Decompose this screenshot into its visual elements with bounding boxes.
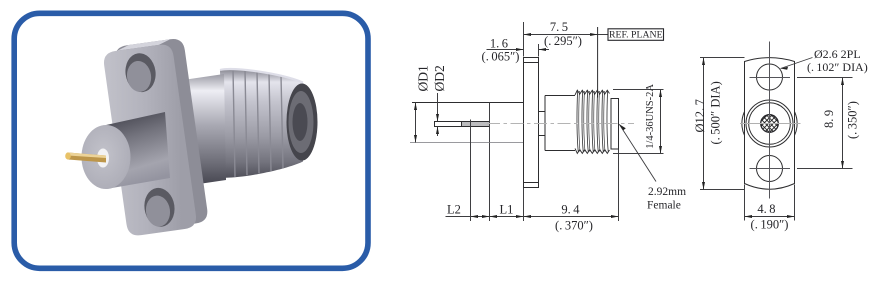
flange (side) xyxy=(524,58,539,188)
svg-text:Ø2.6 2PL: Ø2.6 2PL xyxy=(814,47,861,61)
svg-text:Ø12. 7: Ø12. 7 xyxy=(693,99,707,132)
top mounting hole xyxy=(757,64,783,90)
dimension D2 xyxy=(432,65,447,136)
svg-text:1/4-36UNS-2A: 1/4-36UNS-2A xyxy=(645,84,656,149)
centerlines front view xyxy=(740,42,801,199)
nose / end section xyxy=(611,99,619,150)
svg-text:(. 295″): (. 295″) xyxy=(544,34,582,48)
blue rounded frame xyxy=(14,13,368,268)
dimension 4.8 xyxy=(745,185,795,232)
svg-text:Female: Female xyxy=(647,200,681,212)
svg-text:(. 102″ DIA): (. 102″ DIA) xyxy=(807,60,868,74)
svg-text:(. 370″): (. 370″) xyxy=(555,218,593,232)
3D photo: coupling nut cylinder xyxy=(220,68,318,177)
REF. PLANE box and line xyxy=(598,27,664,98)
svg-text:2.92mm: 2.92mm xyxy=(648,186,686,198)
svg-text:L2: L2 xyxy=(447,203,461,217)
pin xyxy=(434,122,490,127)
svg-text:1. 6: 1. 6 xyxy=(490,36,508,50)
dimension 1.6 xyxy=(482,36,549,63)
centerline xyxy=(487,123,634,125)
svg-text:ØD1: ØD1 xyxy=(416,65,431,91)
dimension 12.7 xyxy=(693,58,745,190)
svg-text:9. 4: 9. 4 xyxy=(561,203,580,217)
3D photo: flange plate xyxy=(102,37,210,237)
dimension 7.5 xyxy=(524,20,609,57)
D1 cylinder xyxy=(410,103,524,143)
svg-text:ØD2: ØD2 xyxy=(432,65,447,91)
dimension 8.9 xyxy=(797,78,860,169)
svg-text:L1: L1 xyxy=(500,203,514,217)
svg-text:REF. PLANE: REF. PLANE xyxy=(609,30,663,41)
3D photo: gold pin xyxy=(65,152,106,162)
svg-text:(. 190″): (. 190″) xyxy=(751,217,789,231)
flange outline (front) xyxy=(745,58,795,190)
body circle behind flange xyxy=(742,96,797,151)
svg-text:8. 9: 8. 9 xyxy=(822,110,836,128)
bottom mounting hole xyxy=(757,156,783,182)
thread OD dimension with 1/4-36UNS-2A xyxy=(613,84,664,154)
neck groove xyxy=(539,112,546,136)
3D photo: body between plate and nut xyxy=(183,74,226,186)
bottom dimension chain L2 L1 9.4 xyxy=(446,120,619,233)
leader 2.6 2PL xyxy=(781,47,868,74)
center interface circles xyxy=(746,100,793,147)
3D photo: front boss cylinder xyxy=(82,112,171,189)
svg-text:7. 5: 7. 5 xyxy=(550,20,568,34)
dimension D1 xyxy=(414,65,431,142)
svg-text:4. 8: 4. 8 xyxy=(757,202,775,216)
svg-text:(. 350″): (. 350″) xyxy=(846,101,860,139)
leader 2.92mm Female xyxy=(619,124,686,211)
svg-text:(. 065″): (. 065″) xyxy=(482,50,520,64)
main body (side) xyxy=(545,96,575,151)
threaded section xyxy=(575,90,611,154)
svg-text:(. 500″ DIA): (. 500″ DIA) xyxy=(709,81,723,144)
